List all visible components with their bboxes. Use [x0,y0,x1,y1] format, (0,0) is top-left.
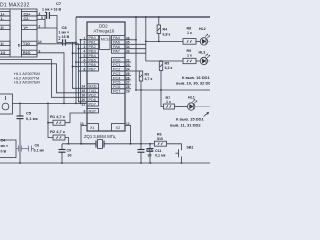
wire PB5 lead [76,61,87,63]
wire PA7 lead [125,52,146,54]
node junction [80,103,82,105]
node junction [75,43,77,45]
wire left net B [0,64,87,93]
svg-text:D1 MAX232: D1 MAX232 [0,3,30,9]
wire PB0 lead [80,39,87,41]
DD1 cell C2+ [22,12,38,16]
capacitor C5 [19,103,21,116]
svg-text:R9: R9 [187,49,192,53]
svg-text:C6: C6 [35,143,40,147]
svg-text:К выв. 15 DD1: К выв. 15 DD1 [176,117,204,122]
wire bus v1 [73,42,88,88]
svg-text:PA7: PA7 [113,50,120,54]
svg-text:3: 3 [84,45,86,49]
wire PC3 lead [125,74,131,76]
svg-text:C9: C9 [67,149,72,153]
svg-text:4: 4 [84,50,86,54]
svg-text:510: 510 [157,137,163,141]
IC DD2 ATmega16 [87,22,125,131]
node junction [140,89,142,91]
DD1 cell T1O [22,41,38,45]
wire arrow +5 [206,89,210,91]
wire pin5 [37,16,45,20]
wire crystal left [62,143,96,145]
svg-text:6,8 к: 6,8 к [163,33,171,37]
svg-text:R1 4,7 к: R1 4,7 к [50,114,65,119]
svg-text:PD7: PD7 [89,102,96,106]
wire PA5 to R8 row [125,43,146,45]
node junction [158,41,160,43]
resistor R1 power marks [56,122,57,124]
svg-text:R2 4,7 к: R2 4,7 к [50,129,65,134]
svg-text:7: 7 [84,63,86,67]
IC DD1 MAX232 body [0,9,37,57]
svg-text:1O: 1O [1,51,6,55]
resistor R5 power mark [160,64,162,67]
svg-text:ZQ1 3,6864 МГц: ZQ1 3,6864 МГц [84,134,116,139]
wire R7 row feed [161,90,164,107]
power rail +5V top [76,16,210,18]
wire C8 to bus [65,41,76,43]
svg-text:2: 2 [84,41,86,45]
node junction [72,52,74,54]
svg-text:X2: X2 [116,126,121,130]
wire C7 loop to C8 [57,28,63,42]
IR receiver B1 [0,94,13,114]
svg-text:HL3 АЛ307БМ: HL3 АЛ307БМ [14,79,40,84]
svg-text:ATmega16: ATmega16 [94,28,115,33]
node junction [75,61,77,63]
svg-text:R8: R8 [187,27,192,31]
resistor R8 power marks [187,40,188,42]
node junction [47,122,49,124]
wire T1O to bus v3 [37,44,87,102]
wire PA4 lead [125,39,136,41]
node junction [78,48,80,50]
LED HL1 [175,96,211,111]
wire C7 loop left [44,20,46,29]
svg-text:C4: C4 [1,139,6,143]
node junction [19,162,21,164]
svg-text:15: 15 [82,89,86,93]
node junction [61,162,63,164]
svg-text:PB7: PB7 [89,67,96,71]
DD1 cell R2O [22,50,38,54]
svg-text:9: 9 [84,109,86,113]
DD2 right pin numbers PA [126,36,130,53]
svg-text:+: + [58,38,60,42]
LED HL2 [196,27,210,45]
svg-text:X1: X1 [90,126,95,130]
DD2 right pin numbers PC [126,59,130,94]
wire PC2 to R3 [125,70,141,72]
svg-text:6: 6 [84,59,86,63]
svg-text:PC7: PC7 [113,90,120,94]
svg-text:5: 5 [84,54,86,58]
wire reset net [125,79,131,81]
wire PA6 lead [125,48,146,50]
node junction [68,143,70,145]
svg-text:1 к: 1 к [166,100,171,104]
svg-text:T1O: T1O [23,42,30,46]
DD2 cell X1 [87,124,99,132]
wire PB1 lead [76,43,87,45]
wire PB3 lead [73,52,88,54]
svg-text:1 к: 1 к [187,54,192,58]
wire +5 feeder [135,17,137,90]
wire arrow gnd [204,113,209,117]
wire PC5 lead [125,83,131,85]
DD2 cell X2 [112,124,126,132]
svg-text:1: 1 [84,36,86,40]
capacitor C11 [149,144,151,149]
DD2 left cells RXD TXD PD2 PD6 PD7 [87,84,99,107]
svg-text:SB1: SB1 [187,145,194,149]
DD2 left pin cells PB0-PB7 [87,35,99,71]
node junction [80,57,82,59]
resistor R2 power marks [56,136,57,138]
resistor R9 power marks [187,60,188,62]
svg-text:R2O: R2O [23,51,31,55]
capacitor C6 [21,148,28,150]
svg-text:8: 8 [84,67,86,71]
capacitor C7 [46,12,48,19]
svg-text:1I: 1I [1,42,4,46]
DD1 cell V+ [22,25,38,29]
svg-text:К выв. 16 DD1,: К выв. 16 DD1, [182,75,210,80]
wire +5 distribution [136,89,206,91]
wire PC0 to R9 row [125,61,131,63]
wire left net A [0,60,87,98]
LED HL3 [196,51,210,65]
svg-text:MCU: MCU [101,38,110,42]
resistor R3 power mark [140,75,142,78]
node junction [135,89,137,91]
svg-text:0 В: 0 В [1,150,7,154]
op-amp U1 [0,9,37,57]
DD2 left pin numbers 14 15 16 20 21 [82,85,86,107]
svg-text:0,1 мк: 0,1 мк [155,154,166,158]
svg-text:выв. 11, 31 DD2: выв. 11, 31 DD2 [170,123,201,128]
svg-text:R5: R5 [165,62,170,66]
svg-text:R6: R6 [157,133,162,137]
svg-text:14: 14 [82,85,86,89]
wire pin4 to C7 loop [37,15,47,17]
svg-text:0,1 мк: 0,1 мк [26,116,38,121]
switch SB1 [167,144,194,164]
resistor R3 [139,71,142,81]
wire bus v2 [75,17,77,103]
wire IR out [13,102,88,104]
svg-text:мк ×: мк × [1,144,9,148]
svg-text:C7: C7 [56,1,62,6]
ground rail [0,162,210,164]
resistor R4 [158,16,160,18]
wire C7 loop right/bottom [37,16,57,29]
capacitor C9 [61,144,63,150]
DD1 cell C2- [22,16,38,20]
node junction [47,103,49,105]
svg-text:1 к: 1 к [187,31,192,35]
resistor R6 power marks [158,143,159,145]
resistor R4 power mark [158,28,160,31]
svg-text:HL3: HL3 [199,51,206,55]
node junction [72,66,74,68]
svg-text:2I: 2I [1,26,4,30]
svg-text:HL2: HL2 [199,27,206,31]
svg-text:HL1: HL1 [188,96,195,100]
node junction [135,16,137,18]
svg-text:RST: RST [89,109,97,113]
svg-text:C8: C8 [62,25,68,30]
node junction [160,89,162,91]
DD2 cell RST [87,109,99,113]
wire PC1 lead [125,66,131,68]
wire X2 to crystal [125,125,131,144]
node junction [140,162,142,164]
resistor R7 power marks [166,105,167,107]
capacitor C10 [138,149,145,151]
wire PB2 lead [78,48,87,50]
DD2 right cells PA4-PA7 [112,35,126,53]
svg-text:0,1 мк: 0,1 мк [34,149,45,153]
svg-text:выв. 10, 30, 32 DD2: выв. 10, 30, 32 DD2 [176,81,210,86]
svg-text:R4: R4 [163,28,168,32]
svg-text:3,3 к: 3,3 к [165,66,173,70]
DD2 right cells PC0-PC7 [112,58,126,94]
svg-text:29: 29 [126,90,130,94]
wire R2O to bus v1 [37,53,64,104]
DD1 left cells [0,12,10,16]
resistor R5 [160,60,162,62]
svg-text:C10: C10 [146,149,153,153]
node junction [149,143,151,145]
svg-text:30: 30 [68,154,72,158]
svg-text:V+: V+ [24,26,29,30]
svg-text:D: D [18,43,21,47]
svg-text:+: + [45,11,47,15]
wire X1 to crystal [81,125,96,144]
wire PC6 lead [125,88,131,90]
wire PB7 lead [78,70,87,72]
svg-text:16: 16 [82,94,86,98]
node junction [19,103,21,105]
node junction [63,103,65,105]
power connector X [0,140,16,158]
svg-text:C5: C5 [26,111,32,116]
quartz ZQ1 [96,140,104,149]
wire crystal right [104,143,141,145]
svg-text:21: 21 [82,102,86,106]
wire PB6 lead [73,66,88,68]
svg-text:4,7 к: 4,7 к [145,77,153,81]
svg-text:C2-: C2- [24,17,31,21]
node junction [80,39,82,41]
wire PB4 lead [80,57,87,59]
node junction [150,162,152,164]
svg-text:C11: C11 [155,149,161,153]
svg-text:30: 30 [148,154,152,158]
DD2 left pin numbers 1-8 [84,36,86,71]
svg-text:20: 20 [82,98,86,102]
wire bus v4 [79,40,81,104]
node junction [80,143,82,145]
